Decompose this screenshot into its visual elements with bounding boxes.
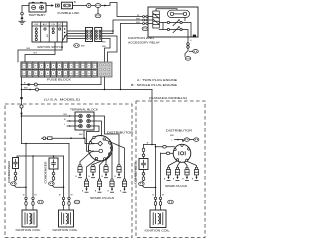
wire ignition switch to relay (IGN): [121, 23, 143, 25]
connector (circle): [14, 172, 17, 175]
wire distributor to spark plug 2: [93, 160, 104, 164]
spark plug P1: [75, 164, 82, 178]
fuse block side connector (gray): [98, 62, 113, 77]
svg-text:DISTRIBUTOR: DISTRIBUTOR: [166, 128, 192, 132]
svg-text:IGNITION COIL: IGNITION COIL: [145, 228, 171, 232]
wire condenser1 to coil1: [14, 185, 26, 187]
wire distributor to spark plug C2: [178, 162, 181, 167]
wire terminal block row1 out to plug riser: [90, 116, 119, 164]
wires harness to relay risers: [102, 31, 117, 62]
wire distributor to spark plug C1: [169, 161, 178, 167]
connector (oval): [14, 177, 17, 181]
connector (oval): [52, 177, 55, 181]
junction: [29, 89, 31, 91]
ignition and accessory relay U1: [148, 7, 198, 37]
spark plug P6: [95, 179, 102, 193]
dashed boundary USA models: [5, 104, 132, 238]
connector (inline circle): [20, 105, 23, 108]
wire distributor left feed 2 (Canada): [161, 152, 174, 154]
wire distributor to spark plug C3: [184, 162, 187, 167]
wire condenser2 to coil2: [52, 185, 63, 187]
stub to lower connector: [97, 7, 99, 13]
connector pair (oval, lower): [95, 14, 101, 18]
coil2 lead connectors: [62, 197, 70, 210]
wire ignition switch to relay (ACC): [113, 20, 143, 34]
wire condenser3 to coil3: [142, 186, 155, 188]
wire terminal block row3 to distributor left: [87, 126, 100, 151]
junction: [25, 143, 27, 145]
wire B+ feed to relay: [101, 3, 143, 17]
wire fuse connector drop 2: [104, 77, 106, 90]
wire relay output S: [187, 37, 189, 43]
arrow (feed direction): [20, 113, 22, 116]
spark plug P7: [107, 179, 114, 193]
condenser C2: [49, 158, 58, 169]
connector (inline square): [20, 97, 22, 99]
svg-text:BATTERY: BATTERY: [29, 13, 46, 17]
wire L into terminal block: [67, 125, 79, 127]
svg-text:IGNITION AND: IGNITION AND: [128, 36, 154, 40]
coil1 lead connectors: [25, 197, 34, 210]
wires switch to connector blocks: [67, 31, 86, 39]
ignition coil 3 (Canada): [150, 210, 166, 228]
svg-text:ON: ON: [52, 24, 56, 26]
connector pair GB (coil1): [38, 200, 44, 204]
wire coil1 negative riser: [32, 156, 34, 197]
spark plug C1: [164, 167, 171, 181]
connector (inline square on bus B): [28, 84, 30, 86]
junction: [21, 84, 23, 86]
wire distributor cap feed (Canada) with connectors: [175, 140, 184, 142]
connector pair GB (coil2): [74, 200, 80, 204]
wire bus B (horizontal): [22, 84, 102, 86]
wire distributor to spark plug C4: [187, 161, 196, 167]
dashed boundary Canada models: [136, 101, 205, 238]
wire condenser3 lower lead: [143, 170, 145, 173]
connector (inline circle on bus B): [34, 83, 37, 86]
connector (inline box): [48, 137, 52, 140]
fusible link: [58, 2, 80, 15]
wire fuse connector drop 1: [100, 77, 102, 85]
connector (circle): [52, 172, 55, 175]
wire condenser2 lower lead: [53, 169, 55, 172]
spark plug C4: [192, 167, 199, 181]
wire: [91, 5, 95, 7]
svg-text:FUSE BLOCK: FUSE BLOCK: [47, 78, 71, 82]
spark plug P4: [114, 164, 121, 178]
wire fusible link to connector: [73, 5, 87, 7]
distributor (Canada): [173, 144, 191, 162]
spark plug P8: [120, 179, 127, 193]
junction: [151, 144, 153, 146]
wire bus WB (horizontal, to Canada): [22, 89, 153, 91]
wire BW switch to fuse block: [18, 42, 62, 62]
svg-text:WB: WB: [102, 46, 106, 48]
condenser C3 (Canada): [139, 159, 148, 170]
connector pair (oval): [95, 4, 101, 8]
connector (circle): [142, 154, 145, 157]
svg-text:RG: RG: [34, 53, 38, 55]
connector pair GB (Canada condenser): [139, 182, 145, 186]
connector pair (oval right): [193, 50, 199, 54]
svg-text:IGNITION COIL: IGNITION COIL: [16, 228, 42, 232]
connector pair GB: [49, 182, 55, 186]
connector (relay output): [187, 43, 190, 46]
wire distributor to spark plug 5: [87, 160, 97, 179]
svg-text:DISTRIBUTOR: DISTRIBUTOR: [107, 130, 133, 134]
spark plug P3: [101, 164, 108, 178]
connector pair GB: [11, 182, 17, 186]
connector pair GB under harness: [74, 44, 80, 48]
svg-text:CONDENSER: CONDENSER: [44, 161, 48, 183]
wire terminal block bottom BW: [83, 130, 85, 138]
wire coil2 positive riser: [68, 144, 70, 197]
svg-text:SPARK PLUGS: SPARK PLUGS: [165, 184, 187, 188]
svg-text:CONDENSER: CONDENSER: [7, 161, 11, 183]
wire distributor feed line (with inline connectors): [42, 138, 98, 143]
wire accessory riser: [120, 24, 122, 90]
junction: [53, 155, 55, 157]
junction: [32, 155, 34, 157]
junction: [104, 89, 106, 91]
connector (oval inline): [166, 152, 170, 155]
wire fuse block main feed down: [21, 77, 23, 144]
svg-text:WB: WB: [136, 22, 140, 24]
terminal block: [75, 112, 94, 130]
wire Canada feed riser: [151, 90, 153, 145]
svg-text:WR: WR: [136, 18, 140, 20]
wire coil1 positive riser: [25, 144, 27, 197]
spark plug C3: [182, 167, 189, 181]
wire coil2 negative riser: [63, 156, 65, 197]
connector (inline circle on bus WB): [36, 88, 39, 91]
svg-text:IGNITION COIL: IGNITION COIL: [53, 228, 79, 232]
junction: [70, 137, 72, 139]
wire condenser1 lower lead: [15, 169, 17, 173]
wire condenser bus (horizontal): [17, 156, 64, 158]
ignition coil 1: [22, 210, 37, 227]
wire Canada horizontal link: [144, 144, 156, 146]
connector block (switch harness 2): [95, 28, 102, 42]
wire condenser2 lead: [53, 156, 55, 158]
svg-text:TERMINAL BLOCK: TERMINAL BLOCK: [70, 107, 98, 111]
connector on battery ground wire: [21, 12, 24, 15]
wire distributor to spark plug 7: [111, 144, 112, 179]
svg-text:A : TWIN PLUG ENGINE: A : TWIN PLUG ENGINE: [137, 78, 177, 82]
wire Canada condenser upper chain: [143, 145, 145, 149]
spark plug P5: [82, 179, 89, 193]
coil3 lead connectors: [154, 197, 161, 210]
wire terminal block row2 to distributor cap center: [90, 121, 101, 136]
wire distributor to spark plug 6: [100, 155, 110, 179]
condenser C1: [13, 158, 19, 169]
distributor (USA): [88, 136, 112, 161]
connector (inline, battery feed): [56, 4, 60, 7]
svg-text:IGNITION SWITCH: IGNITION SWITCH: [37, 45, 63, 49]
svg-text:SPARK PLUGS: SPARK PLUGS: [90, 196, 114, 200]
connector pair (oval): [184, 138, 189, 141]
spark plug C2: [173, 167, 180, 181]
svg-text:WB: WB: [170, 135, 174, 137]
svg-text:FUSIBLE LINK: FUSIBLE LINK: [58, 11, 80, 15]
battery: [29, 2, 46, 17]
svg-text:RB: RB: [64, 114, 68, 116]
wire battery negative to ground: [22, 6, 29, 13]
connector pair GB (below): [185, 57, 191, 61]
wire battery positive to fusible link: [46, 5, 51, 7]
svg-text:(CANADA MODELS): (CANADA MODELS): [149, 96, 187, 100]
ignition switch: [32, 22, 67, 42]
relay pin connectors: [143, 16, 148, 25]
connector (circle): [142, 173, 145, 176]
connector pair (oval): [194, 138, 199, 141]
connector pair GB (coil3): [168, 200, 174, 204]
connector (oval): [142, 148, 145, 152]
connector (oval): [142, 177, 145, 181]
ground (battery): [19, 21, 25, 24]
svg-text:B : SINGLE PLUG ENGINE: B : SINGLE PLUG ENGINE: [131, 83, 177, 87]
fuse block: [21, 62, 98, 77]
svg-text:ACCESSORY RELAY: ACCESSORY RELAY: [128, 40, 160, 44]
svg-text:OFF: OFF: [34, 24, 39, 26]
connector pair GB below relay pins: [142, 27, 148, 31]
wire Canada coil positive riser: [155, 145, 157, 197]
circular connector B: [87, 3, 91, 7]
connector block (switch harness 1): [86, 28, 93, 42]
wire RB into terminal block: [22, 115, 79, 117]
wire B into terminal block: [67, 120, 79, 122]
wire RG switch to fuse block: [25, 42, 55, 62]
wire distributor to spark plug 1: [80, 153, 90, 164]
wire distributor left feed 1 (Canada): [156, 146, 175, 148]
ignition coil 2: [59, 210, 74, 227]
svg-text:ACC: ACC: [43, 23, 48, 26]
wire bus to coils (BW horizontal): [22, 143, 70, 145]
junction: [21, 89, 23, 91]
wire Canada coil negative riser: [160, 153, 162, 197]
svg-text:CONDENSER: CONDENSER: [134, 162, 138, 184]
spark plug P2: [88, 164, 95, 178]
svg-text:(U.S.A. MODELS): (U.S.A. MODELS): [44, 97, 80, 101]
svg-text:B: B: [74, 0, 76, 4]
wire distributor to spark plug 8: [105, 140, 125, 179]
connector (oval inline): [163, 146, 167, 149]
wire harness down to fuse block connector: [102, 39, 110, 63]
connector (inline circle): [43, 137, 46, 140]
wire distributor to spark plug 3: [106, 149, 112, 164]
